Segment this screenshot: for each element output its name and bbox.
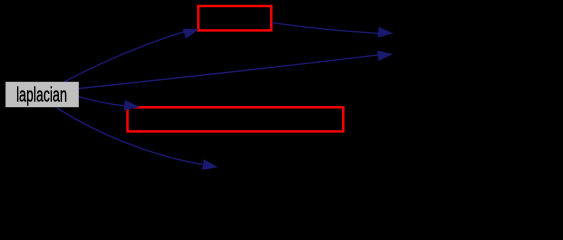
svg-text:laplacian: laplacian [16,85,67,107]
arrowhead: laplacian -> top box [183,29,199,39]
arrowhead: laplacian -> right node 2 [377,51,393,62]
arrowhead: top box -> right node [378,27,394,38]
edge: laplacian -> middle truncated box [79,97,125,106]
arrowhead: laplacian -> bottom node [202,159,218,170]
edge: laplacian -> top truncated box [64,32,184,82]
edge: laplacian -> right node 2 (hidden) [79,55,379,89]
node: laplacian (current function, grey) [6,82,79,107]
edge: top truncated box -> right node (hidden) [272,23,379,34]
node: middle truncated box (red border, hidden label) [128,107,344,131]
edge: laplacian -> bottom node (hidden) [57,108,203,165]
arrowhead: laplacian -> middle box [124,100,140,111]
node: top truncated box (red border, hidden label) [198,6,271,30]
